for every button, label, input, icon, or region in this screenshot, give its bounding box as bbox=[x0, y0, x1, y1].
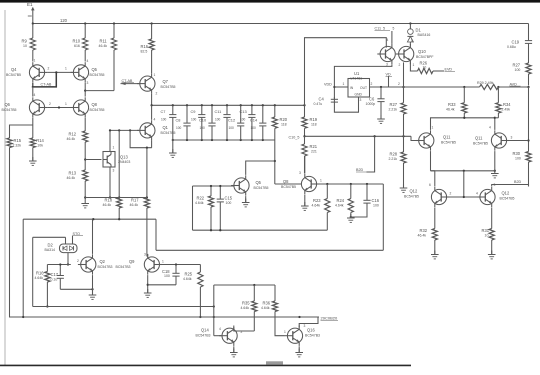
wire Q13 collector up bbox=[109, 130, 111, 151]
svg-text:100: 100 bbox=[515, 68, 521, 72]
svg-text:C14: C14 bbox=[250, 118, 258, 123]
svg-text:R19: R19 bbox=[310, 117, 318, 122]
wire Q8mid out bbox=[317, 183, 383, 185]
capacitor C7 bbox=[161, 105, 177, 140]
svg-text:Q11: Q11 bbox=[443, 135, 451, 140]
ground below R13 bbox=[81, 196, 89, 208]
svg-text:46.4k: 46.4k bbox=[99, 44, 108, 48]
svg-text:R16: R16 bbox=[141, 44, 149, 49]
resistor R33 bbox=[446, 87, 467, 118]
svg-text:BC547B5: BC547B5 bbox=[90, 73, 105, 77]
svg-text:4.64k: 4.64k bbox=[183, 277, 192, 281]
svg-text:3: 3 bbox=[360, 98, 362, 102]
net label 29C0B20 bbox=[321, 316, 339, 321]
svg-text:C8: C8 bbox=[176, 118, 181, 123]
capacitor C13 bbox=[240, 105, 256, 140]
resistor R31 bbox=[482, 228, 496, 259]
capacitor C17 bbox=[51, 263, 64, 289]
svg-text:10: 10 bbox=[423, 65, 427, 69]
svg-text:D1: D1 bbox=[416, 28, 422, 33]
resistor R28 bbox=[389, 152, 407, 189]
transistor Q2 bbox=[77, 254, 113, 274]
capacitor C16 bbox=[351, 184, 380, 217]
resistor R22 bbox=[195, 185, 214, 230]
wire Q10 collector bbox=[409, 43, 411, 45]
svg-text:46.4k: 46.4k bbox=[418, 233, 427, 237]
wire down to Q6 bbox=[32, 87, 34, 97]
wire Q5 emitter to Q8 collector bbox=[84, 83, 86, 97]
svg-text:Q12: Q12 bbox=[502, 191, 510, 196]
svg-text:C4: C4 bbox=[319, 97, 325, 102]
svg-text:3: 3 bbox=[299, 171, 301, 175]
svg-text:R11: R11 bbox=[100, 39, 108, 44]
svg-text:10: 10 bbox=[485, 233, 489, 237]
svg-text:0.68u: 0.68u bbox=[507, 45, 516, 49]
wire base row y136 bbox=[305, 135, 412, 137]
resistor R11 bbox=[99, 24, 117, 91]
svg-text:2.21k: 2.21k bbox=[389, 157, 398, 161]
svg-text:2: 2 bbox=[371, 82, 373, 86]
svg-text:D2: D2 bbox=[48, 243, 54, 248]
wire Q12 bases bbox=[447, 196, 479, 198]
svg-text:5: 5 bbox=[393, 27, 395, 31]
resistor R19 bbox=[302, 105, 318, 136]
wire Q12A collector bbox=[431, 171, 435, 187]
svg-text:3: 3 bbox=[144, 253, 146, 257]
net label VD bbox=[386, 73, 393, 88]
net label C11_5 bbox=[375, 27, 395, 31]
capacitor C10 bbox=[199, 105, 216, 140]
svg-text:4: 4 bbox=[154, 118, 156, 122]
wire Q9t collector flag bbox=[391, 31, 393, 44]
svg-text:R34: R34 bbox=[503, 102, 511, 107]
svg-text:100: 100 bbox=[164, 274, 170, 278]
wire Q4 feedback dark bbox=[32, 72, 57, 87]
rail y197 bbox=[85, 197, 147, 199]
svg-text:2: 2 bbox=[48, 67, 50, 71]
svg-text:4.64k: 4.64k bbox=[195, 201, 204, 205]
net label CT-AB arrow bbox=[121, 79, 140, 85]
wire Q2 collector bbox=[92, 219, 94, 254]
wire to R15 bbox=[10, 125, 33, 138]
svg-text:100: 100 bbox=[176, 126, 182, 130]
wire Q12B emitter bbox=[491, 208, 493, 229]
svg-text:BC547B5: BC547B5 bbox=[2, 108, 17, 112]
svg-text:R13: R13 bbox=[69, 171, 77, 176]
wire Q5mid emitter gnd bbox=[242, 196, 250, 207]
wire Q13 emitter down bbox=[109, 167, 111, 199]
svg-text:4.64k: 4.64k bbox=[335, 203, 344, 207]
wire Qpair to U1 bbox=[334, 64, 392, 112]
svg-text:C12: C12 bbox=[228, 118, 235, 123]
svg-text:1: 1 bbox=[413, 63, 415, 67]
svg-text:4: 4 bbox=[476, 192, 478, 196]
resistor R15 bbox=[7, 138, 22, 148]
svg-text:B2D: B2D bbox=[514, 180, 522, 184]
wire Q10 emitter to R26 bbox=[410, 62, 417, 71]
svg-text:BAS416: BAS416 bbox=[418, 33, 431, 37]
resistor R27 bbox=[513, 63, 532, 86]
ground R24 bbox=[347, 214, 355, 222]
wire right edge down bbox=[527, 87, 529, 152]
wire Q5mid collector bbox=[246, 161, 275, 175]
svg-text:10: 10 bbox=[23, 44, 27, 48]
svg-text:Q6: Q6 bbox=[5, 102, 11, 107]
junction top rail bbox=[32, 22, 412, 24]
svg-text:C11: C11 bbox=[215, 109, 222, 114]
svg-text:EVD: EVD bbox=[445, 68, 453, 72]
svg-text:R35: R35 bbox=[242, 301, 250, 306]
wire Q16 emitter gnd bbox=[295, 346, 303, 357]
svg-text:10k: 10k bbox=[37, 143, 43, 147]
svg-text:R28: R28 bbox=[390, 152, 398, 157]
svg-text:4.64k: 4.64k bbox=[261, 306, 270, 310]
transistor Q5 bbox=[65, 59, 105, 85]
wire D2 feed bbox=[33, 236, 66, 238]
wire node row y130 bbox=[109, 129, 139, 131]
svg-text:BC547B5: BC547B5 bbox=[6, 73, 21, 77]
wire rail y170 bbox=[431, 170, 496, 172]
svg-text:4: 4 bbox=[219, 327, 221, 331]
svg-text:BC547B5: BC547B5 bbox=[254, 186, 269, 190]
resistor R35 bbox=[241, 285, 257, 331]
resistor R14 bbox=[30, 138, 44, 148]
capacitor C15 bbox=[217, 185, 233, 230]
svg-text:0.47u: 0.47u bbox=[314, 102, 323, 106]
wire Q2 base row bbox=[47, 264, 70, 266]
transistor Q14 bbox=[196, 326, 243, 346]
transistor Q7 bbox=[137, 73, 176, 96]
transistor Q4 bbox=[6, 59, 50, 83]
svg-text:1: 1 bbox=[113, 146, 115, 150]
resistor R21 bbox=[302, 136, 318, 173]
power flag E1 bbox=[27, 2, 35, 23]
svg-text:100: 100 bbox=[191, 117, 197, 121]
svg-text:C18: C18 bbox=[162, 269, 170, 274]
resistor R20 bbox=[272, 105, 288, 184]
svg-text:R30: R30 bbox=[513, 151, 521, 156]
svg-text:CT-AB: CT-AB bbox=[41, 83, 52, 87]
svg-text:BC547B5: BC547B5 bbox=[281, 185, 296, 189]
wire rail y285 bbox=[214, 284, 275, 286]
wire Q9 base out bbox=[160, 263, 200, 265]
svg-text:1: 1 bbox=[65, 67, 67, 71]
ground R28 bbox=[400, 184, 408, 192]
svg-text:Q10: Q10 bbox=[418, 49, 426, 54]
scroll tab bbox=[266, 361, 283, 364]
svg-text:STO: STO bbox=[73, 232, 81, 236]
svg-text:2: 2 bbox=[398, 82, 400, 86]
wire Q12B collector out bbox=[492, 180, 529, 187]
wire D2 out bbox=[67, 253, 69, 266]
svg-text:Q9: Q9 bbox=[129, 259, 135, 264]
svg-text:Q7: Q7 bbox=[163, 79, 169, 84]
svg-text:46.4k: 46.4k bbox=[446, 107, 455, 111]
svg-text:2.32k: 2.32k bbox=[13, 143, 22, 147]
svg-text:BC547B5: BC547B5 bbox=[90, 108, 105, 112]
resistor R10 bbox=[73, 24, 88, 62]
svg-text:100: 100 bbox=[226, 201, 232, 205]
svg-text:Q1: Q1 bbox=[163, 125, 169, 130]
svg-text:3: 3 bbox=[386, 63, 388, 67]
wire left inner drop bbox=[32, 237, 34, 306]
svg-text:4.64k: 4.64k bbox=[241, 306, 250, 310]
svg-text:118: 118 bbox=[311, 122, 317, 126]
resistor R29 bbox=[477, 81, 530, 90]
svg-text:Q8: Q8 bbox=[92, 102, 98, 107]
svg-text:Q5: Q5 bbox=[256, 180, 262, 185]
wire Q9t emitter down bbox=[0, 0, 1, 1]
svg-text:R24: R24 bbox=[337, 198, 345, 203]
transistor Q12 B bbox=[450, 183, 515, 207]
svg-text:4: 4 bbox=[387, 38, 389, 42]
svg-text:4: 4 bbox=[489, 126, 491, 130]
svg-text:BC547BPF: BC547BPF bbox=[416, 55, 434, 59]
svg-text:BC547B5: BC547B5 bbox=[473, 141, 488, 145]
svg-text:C10_5: C10_5 bbox=[289, 135, 300, 139]
svg-text:100: 100 bbox=[215, 117, 221, 121]
svg-text:C15: C15 bbox=[225, 196, 233, 201]
svg-text:46.4k: 46.4k bbox=[67, 137, 76, 141]
svg-text:BC547B3: BC547B3 bbox=[98, 265, 113, 269]
transistor Q13 bbox=[103, 146, 130, 173]
net label EVD bbox=[445, 68, 456, 72]
wire Q4 base to Q5 base bbox=[47, 71, 72, 73]
svg-text:3: 3 bbox=[87, 81, 89, 85]
wire Q14 emitter gnd bbox=[230, 346, 238, 357]
wire R18 drop bbox=[118, 130, 120, 198]
wire rail y219 bbox=[23, 218, 156, 220]
svg-text:R22: R22 bbox=[197, 196, 205, 201]
svg-text:221: 221 bbox=[311, 149, 317, 153]
svg-text:1: 1 bbox=[34, 59, 36, 63]
window top bar bbox=[0, 0, 540, 3]
transistor Q1 bbox=[137, 118, 176, 141]
capacitor C8 bbox=[176, 105, 191, 140]
svg-text:C11_5: C11_5 bbox=[375, 27, 386, 31]
svg-text:Q8: Q8 bbox=[283, 179, 289, 184]
diode D1 bbox=[407, 24, 430, 44]
transistor Q12 A bbox=[404, 183, 449, 207]
wire Q16 collector bbox=[299, 317, 318, 327]
capacitor C6 bbox=[366, 87, 385, 123]
svg-text:120: 120 bbox=[60, 18, 68, 23]
transistor Q16 bbox=[284, 324, 320, 346]
svg-text:2: 2 bbox=[450, 192, 452, 196]
svg-text:BC547B5: BC547B5 bbox=[441, 140, 456, 144]
svg-text:BC547B3: BC547B3 bbox=[116, 265, 131, 269]
resistor R12 bbox=[67, 131, 88, 170]
svg-text:Q5: Q5 bbox=[92, 67, 98, 72]
svg-text:1: 1 bbox=[343, 82, 345, 86]
svg-text:2: 2 bbox=[399, 63, 401, 67]
svg-text:C19: C19 bbox=[512, 40, 520, 45]
wire Q14 base bbox=[214, 335, 222, 337]
resistor R34 bbox=[496, 87, 511, 118]
svg-text:BC547B3: BC547B3 bbox=[305, 333, 320, 337]
wire jog to Q11 base bbox=[411, 136, 418, 140]
window left border bbox=[4, 10, 6, 366]
svg-text:C9: C9 bbox=[191, 109, 196, 114]
capacitor C19 bbox=[507, 40, 532, 64]
svg-text:VD: VD bbox=[386, 73, 391, 77]
diode D2 bbox=[45, 237, 78, 252]
wire rail y317 bbox=[10, 316, 320, 318]
svg-text:29C0B20: 29C0B20 bbox=[321, 316, 338, 321]
svg-text:1: 1 bbox=[432, 126, 434, 130]
capacitor C14 bbox=[250, 105, 266, 140]
svg-text:2: 2 bbox=[156, 92, 158, 96]
capacitor C11 bbox=[215, 105, 231, 140]
svg-text:LT1461: LT1461 bbox=[351, 76, 363, 80]
svg-text:616: 616 bbox=[74, 44, 80, 48]
net label CT-AB left bbox=[41, 83, 55, 87]
wire Q7 emitter bbox=[151, 94, 153, 106]
svg-text:R27: R27 bbox=[513, 63, 521, 68]
svg-text:B2D: B2D bbox=[356, 168, 364, 172]
transistor Q9 bbox=[116, 253, 165, 275]
svg-text:0.1u: 0.1u bbox=[51, 277, 58, 281]
resistor R23 bbox=[312, 184, 330, 230]
svg-text:R14: R14 bbox=[36, 138, 44, 143]
svg-text:1: 1 bbox=[284, 330, 286, 334]
svg-text:BC547B5: BC547B5 bbox=[404, 194, 419, 198]
ground below R14 bbox=[29, 148, 37, 166]
svg-text:2: 2 bbox=[77, 259, 79, 263]
rail cap top bbox=[150, 104, 305, 106]
svg-text:100: 100 bbox=[373, 203, 379, 207]
wire riser x213 bbox=[213, 285, 215, 336]
resistor R17 bbox=[130, 198, 150, 257]
svg-text:R33: R33 bbox=[448, 102, 456, 107]
svg-text:2: 2 bbox=[49, 102, 51, 106]
resistor R30 bbox=[513, 151, 532, 187]
svg-text:AVD: AVD bbox=[510, 82, 518, 86]
transistor Q6 bbox=[2, 93, 48, 118]
wire rail y306 bbox=[33, 305, 215, 307]
svg-text:100: 100 bbox=[515, 156, 521, 160]
wire Q14 collector bbox=[234, 327, 255, 331]
transistor Q8 mid bbox=[281, 171, 322, 194]
svg-text:R17: R17 bbox=[131, 198, 139, 203]
wire C17 to emitter bbox=[60, 288, 93, 290]
wire Q4 emitter bbox=[32, 83, 34, 87]
wire top rail right corner bbox=[528, 24, 530, 41]
capacitor C12 bbox=[228, 105, 244, 140]
svg-text:R21: R21 bbox=[310, 144, 318, 149]
svg-text:3: 3 bbox=[113, 169, 115, 173]
svg-text:2.49k: 2.49k bbox=[502, 107, 511, 111]
wire Q8mid emitter gnd bbox=[301, 195, 309, 211]
wire Q8 emitter bbox=[84, 118, 86, 131]
resistor R16 82.5 bbox=[141, 24, 155, 74]
svg-text:1: 1 bbox=[154, 73, 156, 77]
svg-text:E1: E1 bbox=[27, 2, 33, 7]
svg-text:2N4403: 2N4403 bbox=[118, 160, 130, 164]
rail cap bottom bbox=[172, 139, 275, 141]
wire R17 drop bbox=[146, 148, 148, 199]
svg-text:BC547B3: BC547B3 bbox=[196, 333, 211, 337]
svg-text:100: 100 bbox=[251, 126, 257, 130]
svg-text:82.5: 82.5 bbox=[141, 49, 148, 53]
wire Q11B emitter gnd bbox=[491, 151, 499, 178]
svg-text:GND: GND bbox=[355, 92, 363, 96]
resistor R26 bbox=[418, 61, 445, 74]
svg-text:4.64k: 4.64k bbox=[35, 276, 44, 280]
net label VDD bbox=[324, 83, 332, 87]
resistor R9 bbox=[22, 24, 36, 62]
capacitor C9 bbox=[191, 105, 206, 140]
svg-text:3: 3 bbox=[304, 324, 306, 328]
svg-text:3: 3 bbox=[511, 136, 513, 140]
top rail wire 120 bbox=[33, 18, 529, 24]
svg-text:R9: R9 bbox=[22, 39, 28, 44]
svg-text:R23: R23 bbox=[313, 198, 321, 203]
svg-text:R16: R16 bbox=[36, 271, 44, 276]
svg-text:R29 2.49k: R29 2.49k bbox=[477, 81, 494, 85]
svg-text:Q16: Q16 bbox=[307, 328, 315, 333]
wire rail y230 bbox=[193, 229, 328, 231]
svg-text:Q12: Q12 bbox=[410, 189, 418, 194]
resistor R24 bbox=[335, 184, 353, 218]
window bottom bar bbox=[0, 364, 411, 366]
svg-text:CT-AB: CT-AB bbox=[122, 79, 133, 83]
svg-text:6: 6 bbox=[429, 183, 431, 187]
transistor Q5 mid bbox=[231, 175, 268, 195]
wire Q6 base to Q8 base bbox=[47, 106, 72, 108]
svg-text:R32: R32 bbox=[420, 228, 428, 233]
svg-text:R15: R15 bbox=[14, 138, 22, 143]
wire Q2 emitter gnd bbox=[89, 275, 97, 299]
svg-text:4: 4 bbox=[34, 93, 36, 97]
svg-text:BA314: BA314 bbox=[45, 248, 56, 252]
svg-text:46.4k: 46.4k bbox=[103, 203, 112, 207]
svg-text:Q2: Q2 bbox=[100, 259, 106, 264]
wire right drop x383 bbox=[382, 184, 384, 250]
resistor R25 bbox=[183, 265, 203, 319]
wire Q1 collector bbox=[151, 105, 153, 120]
wire Q11A emitter bbox=[430, 151, 432, 171]
capacitor C4 bbox=[314, 97, 339, 106]
resistor R13 bbox=[67, 170, 88, 200]
svg-text:R10: R10 bbox=[73, 39, 81, 44]
svg-text:Q14: Q14 bbox=[201, 328, 209, 333]
wire drop to base row bbox=[463, 171, 465, 197]
wire U1 out bbox=[370, 86, 480, 88]
wire Q6 emitter to R14 bbox=[32, 118, 34, 138]
svg-text:C17: C17 bbox=[51, 272, 59, 277]
svg-text:OUT: OUT bbox=[360, 86, 367, 90]
svg-text:C13: C13 bbox=[240, 109, 247, 114]
svg-text:46.4k: 46.4k bbox=[67, 176, 76, 180]
svg-text:BC547B5: BC547B5 bbox=[161, 131, 176, 135]
svg-text:100: 100 bbox=[161, 117, 167, 121]
svg-text:C10: C10 bbox=[199, 118, 207, 123]
svg-text:BC547B5: BC547B5 bbox=[161, 85, 176, 89]
transistor Q11 B bbox=[473, 126, 513, 151]
svg-text:Q13: Q13 bbox=[120, 155, 128, 160]
transistor Q11 A bbox=[416, 126, 456, 151]
svg-text:R12: R12 bbox=[69, 132, 77, 137]
wire loop top bbox=[305, 38, 387, 106]
svg-text:4: 4 bbox=[87, 59, 89, 63]
transistor Q9 top bbox=[377, 38, 395, 67]
wire block left bbox=[192, 186, 194, 230]
wire Q12A emitter bbox=[434, 208, 436, 229]
svg-text:100: 100 bbox=[229, 126, 235, 130]
svg-text:Q4: Q4 bbox=[11, 67, 17, 72]
svg-text:C16: C16 bbox=[372, 198, 380, 203]
